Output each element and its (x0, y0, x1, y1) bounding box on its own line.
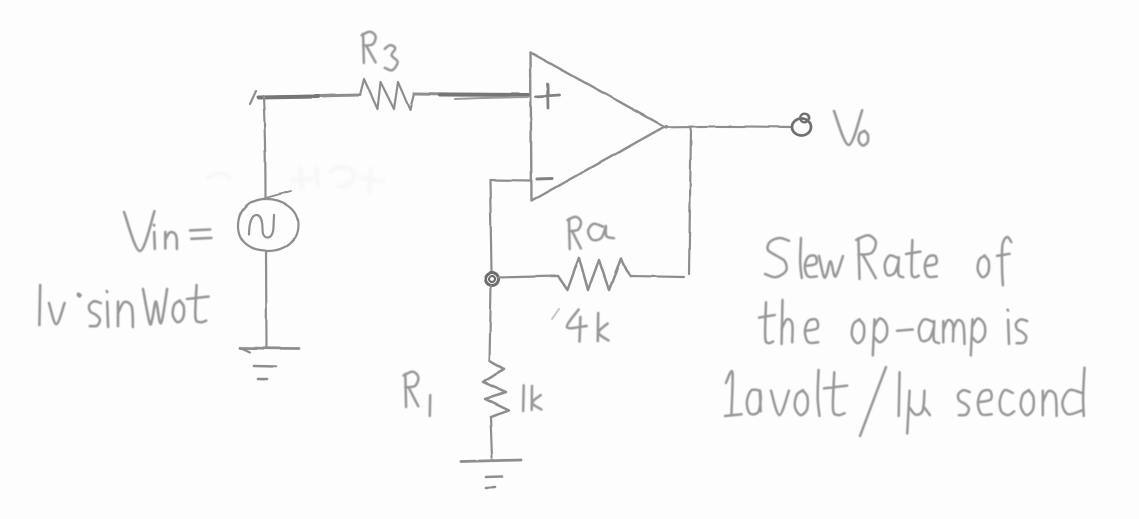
wire source to ground 1 (265, 252, 268, 348)
label Vo (834, 110, 868, 145)
resistor R1 (483, 361, 509, 417)
feedback wire vertical from output (689, 128, 691, 274)
output terminal circle (792, 119, 811, 136)
wire R2 to feedback vertical (631, 276, 685, 277)
output wire from op-amp tip to terminal (664, 125, 791, 128)
op-amp - input pin mark (537, 177, 552, 181)
wire vertical from corner down to source (264, 96, 266, 198)
faint erased pencil ghost marks above source (208, 167, 383, 192)
note line 1: Slew Rate of (765, 235, 1011, 285)
ground 2 dash 2 (486, 486, 495, 489)
stray light tick near 4k label (552, 309, 559, 319)
ground 1 arrow flick (240, 348, 250, 353)
op-amp + input pin mark (536, 84, 559, 108)
voltage source VS circle (238, 199, 298, 251)
op-amp U1 triangle (531, 53, 667, 202)
label 1v sin Wot (39, 285, 208, 327)
ground 1 dash 2 (258, 378, 267, 381)
ground 1 dash 1 (254, 365, 276, 368)
second overdraw stroke on input wire (455, 97, 528, 99)
wire tick at input corner (250, 91, 256, 104)
label R1 (404, 372, 431, 416)
voltage source sine symbol (249, 215, 275, 238)
label Vin = (124, 211, 211, 251)
resistor R2 (558, 258, 631, 291)
wire top horizontal from source corner to R3 (258, 95, 360, 97)
wire node down to R1 (490, 286, 492, 361)
label 1k value of R1 (523, 385, 541, 411)
wire R1 to ground 2 (491, 417, 493, 458)
node junction (inverting input node) (486, 273, 499, 286)
label 4k value of R2 (567, 310, 609, 342)
output terminal loop scribble (800, 114, 809, 123)
note line 2: the op-amp is (759, 300, 1027, 355)
wire vertical down to node (490, 180, 492, 272)
wire node to R2 (498, 276, 558, 278)
voltage source top overshoot tick (262, 191, 291, 199)
resistor R3 (360, 79, 414, 110)
note line 3: 10volt/1u second (725, 367, 1085, 436)
ground 2 dash 1 (486, 475, 502, 478)
label R3 (362, 32, 398, 71)
ground 1 bar (240, 347, 299, 350)
wire R3 to op-amp + input (414, 94, 530, 96)
label R2 (568, 217, 615, 249)
wire from - input going left (490, 179, 531, 182)
ground 2 bar (461, 460, 521, 462)
